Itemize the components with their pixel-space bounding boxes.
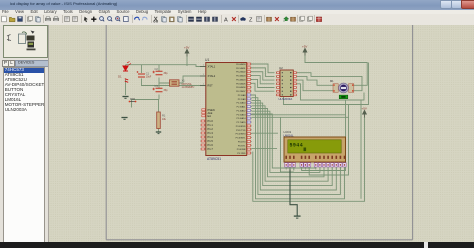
svg-text:+5V: +5V	[302, 44, 307, 48]
svg-text:11.0592MHz: 11.0592MHz	[182, 87, 196, 89]
svg-text:10uF: 10uF	[146, 75, 152, 78]
svg-text:XTAL2: XTAL2	[208, 74, 216, 78]
svg-text:EA: EA	[208, 113, 212, 117]
svg-text:LM016L: LM016L	[284, 133, 295, 137]
svg-text:5944: 5944	[290, 142, 304, 148]
svg-text:U1: U1	[205, 58, 209, 62]
svg-text:P3.6/WR: P3.6/WR	[237, 149, 246, 151]
svg-text:P1.2: P1.2	[208, 127, 214, 131]
svg-text:P3.0/RXD: P3.0/RXD	[236, 125, 246, 127]
svg-text:P3.7/RD: P3.7/RD	[237, 153, 246, 155]
svg-text:P2.4/A12: P2.4/A12	[237, 109, 247, 112]
svg-text:U2: U2	[279, 65, 283, 69]
svg-text:A: A	[224, 17, 228, 23]
svg-text:P2.3/A11: P2.3/A11	[237, 105, 247, 108]
svg-text:CRYSTAL: CRYSTAL	[182, 83, 193, 86]
svg-text:M1: M1	[330, 79, 334, 83]
svg-text:P1.4: P1.4	[208, 135, 214, 139]
svg-text:P0.6/AD6: P0.6/AD6	[236, 86, 246, 89]
svg-text:P1.5: P1.5	[208, 139, 214, 143]
svg-text:AT89C51: AT89C51	[207, 157, 221, 161]
svg-text:+5V: +5V	[184, 45, 189, 49]
svg-text:P0.3/AD3: P0.3/AD3	[236, 74, 246, 77]
svg-text:P0.7/AD7: P0.7/AD7	[236, 90, 246, 93]
svg-text:C3: C3	[155, 83, 159, 87]
svg-text:P3.3/INT1: P3.3/INT1	[236, 137, 247, 139]
svg-text:P0.5/AD5: P0.5/AD5	[236, 82, 246, 85]
svg-text:P0.4/AD4: P0.4/AD4	[236, 78, 246, 81]
svg-text:C2: C2	[155, 66, 159, 70]
svg-text:ULN2003A: ULN2003A	[279, 97, 293, 101]
svg-text:P0.2/AD2: P0.2/AD2	[236, 70, 246, 73]
svg-text:+5V: +5V	[362, 106, 367, 110]
svg-text:P1.7: P1.7	[208, 147, 214, 151]
svg-text:P1.1: P1.1	[208, 123, 214, 127]
svg-text:P1.0: P1.0	[208, 119, 214, 123]
svg-text:X1: X1	[182, 78, 186, 82]
svg-text:XTAL1: XTAL1	[208, 64, 216, 68]
svg-text:P2.5/A13: P2.5/A13	[237, 113, 247, 116]
svg-text:R1: R1	[162, 113, 166, 117]
svg-text:P3.4/T0: P3.4/T0	[238, 141, 246, 143]
svg-text:P3.2/INT0: P3.2/INT0	[236, 133, 247, 135]
svg-text:P1.6: P1.6	[208, 143, 214, 147]
svg-text:P2.0/A8: P2.0/A8	[238, 93, 247, 96]
svg-text:RST: RST	[208, 83, 214, 87]
svg-text:P3.5/T1: P3.5/T1	[238, 145, 246, 147]
svg-text:P3.1/TXD: P3.1/TXD	[236, 129, 246, 131]
svg-text:P2.1/A9: P2.1/A9	[238, 97, 247, 100]
svg-text:P0.1/AD1: P0.1/AD1	[236, 66, 246, 69]
svg-text:P2.7/A15: P2.7/A15	[237, 121, 247, 124]
svg-text:33p: 33p	[164, 72, 169, 75]
svg-text:P0.0/AD0: P0.0/AD0	[236, 63, 246, 66]
svg-text:33p: 33p	[164, 89, 169, 92]
svg-text:D1: D1	[118, 74, 122, 78]
svg-text:Z: Z	[249, 17, 253, 23]
svg-text:P1.3: P1.3	[208, 131, 214, 135]
svg-text:P2.2/A10: P2.2/A10	[237, 101, 247, 104]
svg-text:P2.6/A14: P2.6/A14	[237, 117, 247, 120]
